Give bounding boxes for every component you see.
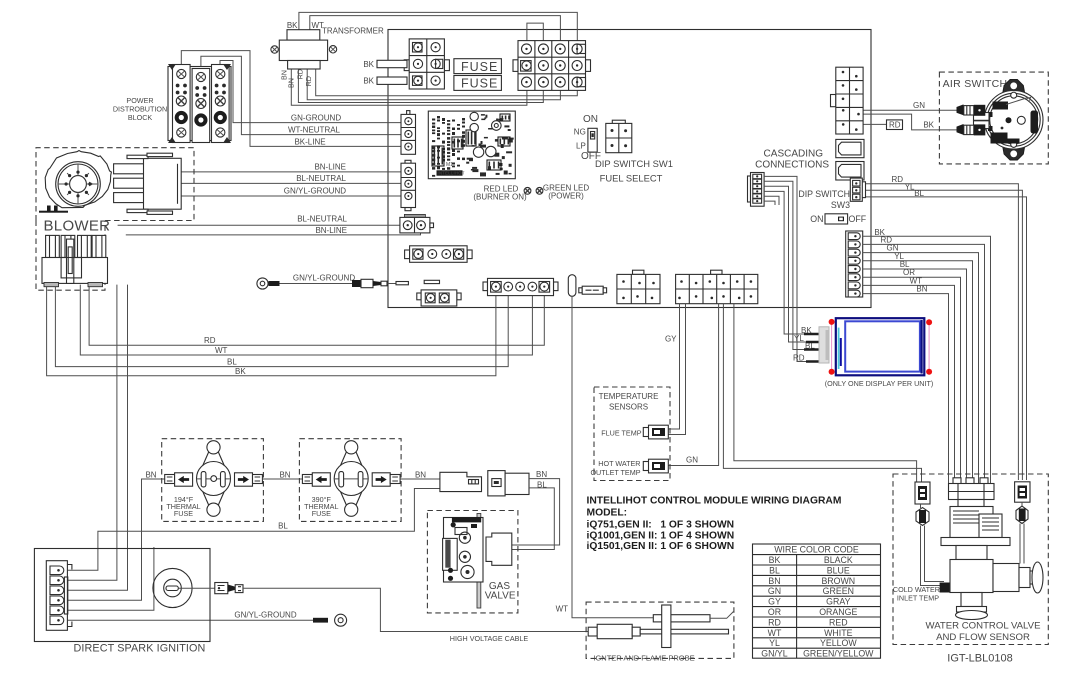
fuse F1 <box>454 59 502 74</box>
wire BK-LINE from power block col1 <box>181 51 401 147</box>
svg-text:GN/YL-GROUND: GN/YL-GROUND <box>284 186 346 195</box>
wire BN fuse1 to fuse2 <box>262 478 302 480</box>
connector J3 3-pin AC input <box>401 111 416 155</box>
svg-text:GRAY: GRAY <box>826 597 850 607</box>
wire RD transformer secondary 3 to 12-pin bottom col3 <box>307 69 560 100</box>
svg-text:DIP SWITCH SW1: DIP SWITCH SW1 <box>595 158 673 169</box>
svg-text:RD: RD <box>891 175 903 184</box>
svg-text:WHITE: WHITE <box>824 628 852 638</box>
air switch pressure switch body <box>984 80 1043 161</box>
inline lamp element <box>568 275 576 297</box>
hot water outlet connector <box>643 459 668 473</box>
spade pair on spark wire <box>215 583 243 594</box>
svg-text:BLOCK: BLOCK <box>128 113 153 122</box>
connector J13 6x2 grid <box>676 270 758 303</box>
wire neutral blower to DSI pin2 <box>67 285 117 581</box>
svg-text:BLOWER: BLOWER <box>44 218 111 235</box>
ring terminal GN/YL dsi <box>313 614 347 626</box>
svg-text:RD: RD <box>889 121 901 130</box>
wire display pin6 stub <box>764 201 775 205</box>
spark electrode <box>153 568 192 607</box>
svg-text:INLET TEMP: INLET TEMP <box>897 594 939 603</box>
wire BL inline to gas valve <box>512 488 555 550</box>
gas valve assembly <box>443 514 512 609</box>
connector fuel select 4-pin box <box>606 120 632 153</box>
thermal fuse 390F right spade <box>372 473 400 486</box>
dash mark on ground wire <box>396 282 408 285</box>
svg-text:INTELLIHOT CONTROL MODULE WIRI: INTELLIHOT CONTROL MODULE WIRING DIAGRAM <box>587 496 842 507</box>
svg-text:WT: WT <box>215 346 228 355</box>
flue temp connector <box>643 425 668 439</box>
svg-text:DIRECT SPARK IGNITION: DIRECT SPARK IGNITION <box>74 643 206 655</box>
svg-text:BK: BK <box>769 555 781 565</box>
svg-text:iQ751,GEN II: 1 OF 3 SHOWN: iQ751,GEN II: 1 OF 3 SHOWN <box>587 520 735 531</box>
control module outline <box>388 30 871 308</box>
wire flow sensor lead <box>1020 524 1024 564</box>
svg-text:ON: ON <box>810 214 823 224</box>
wire GN (J8) <box>863 253 979 484</box>
wire RD (J8) <box>863 244 985 483</box>
svg-text:BL: BL <box>914 189 924 198</box>
svg-text:ORANGE: ORANGE <box>819 607 857 617</box>
svg-text:BN-LINE: BN-LINE <box>315 226 347 235</box>
svg-text:FLUE TEMP: FLUE TEMP <box>601 428 641 437</box>
wire spark electrode to spade <box>178 587 215 589</box>
wire BK 5-pin to blower harness <box>47 285 496 376</box>
thermal fuse 194F <box>197 441 231 517</box>
igniter and flame probe dashed box <box>586 602 734 658</box>
thermal fuse 194F left spade <box>165 473 193 486</box>
wire BN (J8) <box>863 294 949 484</box>
thermal fuse 194F dashed box <box>162 439 264 522</box>
wire DSI pin5 riser <box>67 547 153 610</box>
svg-text:iQ1501,GEN II: 1 OF 6 SHOWN: iQ1501,GEN II: 1 OF 6 SHOWN <box>587 541 735 552</box>
wire DSI pin6 ground <box>67 619 313 621</box>
svg-text:BROWN: BROWN <box>821 576 855 586</box>
wire GY to flue temp <box>668 304 679 429</box>
svg-text:BK: BK <box>363 60 374 69</box>
display unit <box>819 318 932 375</box>
svg-text:(ONLY ONE DISPLAY PER UNIT): (ONLY ONE DISPLAY PER UNIT) <box>825 379 934 388</box>
connector SW3 3-pin <box>850 178 865 201</box>
wire display pin5 stub <box>764 196 779 205</box>
wire BN from DSI pin4 to thermal fuse <box>67 479 164 600</box>
spade terminal BK upper into J1 <box>377 60 407 67</box>
flow sensor right connector <box>1015 482 1030 502</box>
svg-text:BL-NEUTRAL: BL-NEUTRAL <box>296 174 346 183</box>
svg-text:BN: BN <box>536 470 547 479</box>
transformer <box>271 30 337 69</box>
flame probe rod <box>653 612 733 622</box>
connector J5 2-pin <box>400 214 434 233</box>
inline connector right body <box>488 471 529 496</box>
air switch mating housing <box>974 113 990 129</box>
cold water sensor tip <box>940 583 951 593</box>
wire BL 5-pin to blower harness <box>55 285 508 367</box>
PCBFILL <box>432 114 514 177</box>
connector J7 2x5 grid right side <box>831 67 864 134</box>
svg-text:BK: BK <box>287 21 298 30</box>
svg-text:BL-NEUTRAL: BL-NEUTRAL <box>297 215 347 224</box>
svg-text:BLUE: BLUE <box>827 565 850 575</box>
wire RD transformer secondary 4 to 12-pin bottom col4 <box>316 69 578 96</box>
svg-text:GN: GN <box>913 101 925 110</box>
direct spark ignition box <box>34 549 210 642</box>
svg-text:GY: GY <box>768 597 781 607</box>
power distribution block <box>168 64 231 143</box>
wire BL-NEUTRAL blower to J4 <box>140 182 401 184</box>
svg-text:OFF: OFF <box>849 214 867 224</box>
wire BN inline to gas valve <box>512 479 560 545</box>
valve outlet pipe <box>993 562 1043 593</box>
inline connector left body <box>440 472 482 491</box>
svg-text:NG: NG <box>574 128 586 137</box>
inline 2-terminal connector <box>579 286 607 294</box>
svg-text:BL: BL <box>227 358 237 367</box>
wire flue temp second <box>668 304 685 435</box>
svg-text:BN: BN <box>768 576 780 586</box>
svg-text:FUSE: FUSE <box>312 509 331 518</box>
svg-text:FUSE: FUSE <box>174 509 193 518</box>
wire RD 5-pin to blower harness <box>89 285 544 346</box>
wire BL-NEUTRAL lower run to J5 <box>118 224 403 226</box>
svg-text:RD: RD <box>304 76 313 86</box>
svg-text:YL: YL <box>769 638 780 648</box>
label RD boxed <box>887 120 903 130</box>
wire high voltage cable <box>243 588 588 631</box>
thermal fuse 194F right spade <box>235 473 263 486</box>
connector J2 12-pin 4x3 <box>513 41 591 91</box>
wire WT transformer primary to 12-pin col3 <box>310 16 561 41</box>
wire BK to air switch <box>859 114 958 130</box>
wire BN-LINE lower run to J5 <box>126 229 421 235</box>
flow sensor spade <box>1016 502 1028 523</box>
svg-text:HOT WATER: HOT WATER <box>598 459 640 468</box>
wire GN outlet temp <box>668 304 718 466</box>
svg-text:(BURNER ON): (BURNER ON) <box>473 193 527 202</box>
svg-text:GN/YL-GROUND: GN/YL-GROUND <box>234 611 296 620</box>
wire GN-GROUND from power block col3 <box>220 61 401 123</box>
wire RD stub <box>843 123 886 125</box>
svg-text:RD: RD <box>768 617 781 627</box>
blower fan <box>39 151 111 213</box>
blower plug 4-pin <box>114 153 182 214</box>
svg-text:DIP SWITCH: DIP SWITCH <box>798 189 850 199</box>
svg-text:YL: YL <box>794 334 804 343</box>
connector J12 3x2 grid <box>617 270 660 303</box>
svg-text:BN: BN <box>916 285 927 294</box>
svg-text:BK: BK <box>923 121 934 130</box>
cascading connector 2 <box>836 162 864 181</box>
wire BN transformer secondary 1 to 12-pin bottom col1 <box>291 69 527 105</box>
wire GN-GROUND blower ring terminal into module <box>275 283 397 285</box>
spade terminal BK lower into J1 <box>377 77 407 84</box>
svg-text:TEMPERATURE: TEMPERATURE <box>599 392 659 401</box>
svg-text:HIGH VOLTAGE CABLE: HIGH VOLTAGE CABLE <box>450 634 529 643</box>
svg-text:M1: M1 <box>446 162 453 168</box>
svg-text:GN/YL: GN/YL <box>761 649 788 659</box>
wire cold water sensor lead <box>921 526 945 586</box>
mounting plate <box>662 605 671 648</box>
wire YL to display <box>764 186 820 342</box>
cold water temp spade <box>916 504 929 526</box>
svg-text:INTELLIHOT: INTELLIHOT <box>438 171 465 176</box>
dip switch SW1 fuel select <box>588 128 597 152</box>
svg-text:ON: ON <box>583 114 598 125</box>
svg-text:OR: OR <box>768 607 781 617</box>
gas valve dashed box <box>427 511 518 613</box>
wire cold water sensor B <box>734 304 917 482</box>
wire WT-NEUTRAL from power block col2 <box>201 56 401 134</box>
svg-text:GY: GY <box>665 335 677 344</box>
svg-text:TRANSFORMER: TRANSFORMER <box>322 27 384 36</box>
ring terminal GN/YL <box>257 278 280 289</box>
svg-text:WT: WT <box>556 605 569 614</box>
svg-text:GN: GN <box>768 586 781 596</box>
svg-text:BK: BK <box>235 367 246 376</box>
air switch spade lower <box>957 124 986 135</box>
air switch dashed enclosure <box>939 72 1048 164</box>
wire YL (J8) <box>863 261 973 484</box>
connector J6 4-pin bottom <box>405 246 473 262</box>
svg-text:RED: RED <box>829 617 848 627</box>
wire BL (J8) <box>863 269 967 484</box>
svg-text:SW3: SW3 <box>831 200 850 210</box>
wire line blower to DSI pin3 <box>67 285 127 591</box>
air switch spade upper <box>957 104 986 115</box>
svg-text:SENSORS: SENSORS <box>609 403 648 412</box>
DSI connector 6-pin <box>46 561 72 631</box>
svg-text:YELLOW: YELLOW <box>820 638 857 648</box>
svg-text:WT: WT <box>312 21 325 30</box>
valve top connector <box>949 478 995 507</box>
wire BL from SW3 <box>862 197 1027 480</box>
LED symbol red <box>524 187 531 194</box>
display wire thick ends <box>804 334 820 362</box>
svg-text:BLACK: BLACK <box>824 555 853 565</box>
blower power connector <box>42 235 108 286</box>
wire BK (J8) <box>863 236 991 483</box>
svg-text:MODEL:: MODEL: <box>587 508 628 519</box>
svg-text:BK-LINE: BK-LINE <box>294 137 325 146</box>
connector J10 2-pin bottom <box>417 290 461 306</box>
svg-text:FUSE: FUSE <box>461 60 498 74</box>
thermal fuse 390F dashed box <box>299 439 401 522</box>
svg-text:AIR SWITCH: AIR SWITCH <box>943 78 1008 90</box>
svg-text:GN/YL-GROUND: GN/YL-GROUND <box>293 274 355 283</box>
wire BN fuse2 to inline connector <box>400 478 440 480</box>
wire YL from SW3 <box>862 190 1023 480</box>
cold water temp connector <box>915 482 930 504</box>
flow sensor body <box>941 507 1010 620</box>
svg-text:IGNTER AND FLAME PROBE: IGNTER AND FLAME PROBE <box>593 654 694 663</box>
svg-text:BN: BN <box>279 470 290 479</box>
wire OR (J8) <box>863 277 961 483</box>
connector J4 3-pin blower control <box>401 160 416 210</box>
wire BL to display <box>764 181 820 349</box>
svg-text:WT: WT <box>768 628 782 638</box>
svg-text:CONNECTIONS: CONNECTIONS <box>755 160 829 171</box>
wire BK transformer primary to 12-pin col4 <box>299 12 577 40</box>
switch ON/OFF (SW3) <box>825 214 848 224</box>
wire cold water sensor A <box>723 304 921 482</box>
svg-text:GREEN/YELLOW: GREEN/YELLOW <box>803 649 874 659</box>
LED symbol green <box>536 187 543 194</box>
svg-text:FUSE: FUSE <box>461 77 498 91</box>
svg-text:WIRE COLOR CODE: WIRE COLOR CODE <box>774 545 859 555</box>
cascading connector 1 <box>836 139 864 157</box>
svg-text:BK: BK <box>363 77 374 86</box>
water control valve dashed box <box>893 474 1048 645</box>
svg-text:GN: GN <box>686 456 698 465</box>
dash mark 2 <box>424 280 439 283</box>
connector J11 5-pin bottom <box>483 278 558 295</box>
svg-text:WT-NEUTRAL: WT-NEUTRAL <box>288 126 341 135</box>
svg-text:LP: LP <box>576 141 586 150</box>
wire RD to display <box>764 176 820 361</box>
svg-text:BN: BN <box>415 470 426 479</box>
wire BK to display <box>764 191 820 334</box>
svg-text:GN-GROUND: GN-GROUND <box>291 113 341 122</box>
svg-text:(POWER): (POWER) <box>548 192 584 201</box>
wire BN transformer secondary 2 to 12-pin bottom col2 <box>298 69 543 103</box>
svg-text:IGT-LBL0108: IGT-LBL0108 <box>947 653 1012 665</box>
wire WT (J8) <box>863 285 955 483</box>
svg-text:VALVE: VALVE <box>485 591 516 602</box>
igniter <box>588 624 728 638</box>
wire GN/YL-GROUND blower to J4 <box>140 195 401 197</box>
wire bridge 12-pin top row col1-col2 <box>527 23 543 40</box>
svg-text:AND FLOW SENSOR: AND FLOW SENSOR <box>936 632 1030 643</box>
svg-text:CASCADING: CASCADING <box>764 149 824 160</box>
blower dashed enclosure <box>36 148 194 291</box>
svg-text:BL: BL <box>278 522 288 531</box>
svg-text:RD: RD <box>204 336 216 345</box>
svg-text:GREEN: GREEN <box>823 586 854 596</box>
wire WT flame probe feed <box>572 296 653 618</box>
wire color code table <box>753 544 881 659</box>
wire RD from SW3 down right side <box>862 184 1019 480</box>
connector J1 6-pin 2x3 <box>404 39 449 89</box>
svg-text:WATER CONTROL VALVE: WATER CONTROL VALVE <box>926 621 1041 632</box>
svg-text:RD: RD <box>793 353 805 362</box>
wire BL from DSI pin1 to inline connector <box>67 489 440 571</box>
svg-text:BL: BL <box>769 565 780 575</box>
thermal fuse 390F left spade <box>302 473 330 486</box>
svg-text:OUTLET TEMP: OUTLET TEMP <box>590 468 640 477</box>
spade pair on ground wire <box>352 279 387 287</box>
wire GN to air switch <box>843 109 957 111</box>
temperature sensors dashed box <box>594 387 670 481</box>
connector J9 display 6-pin <box>748 173 765 207</box>
PCB control board <box>428 111 515 179</box>
thermal fuse 390F <box>334 441 368 517</box>
fuse F2 <box>454 76 502 91</box>
wire BN-LINE blower to J4 <box>140 171 401 173</box>
svg-text:iQ1001,GEN II: 1 OF 4 SHOWN: iQ1001,GEN II: 1 OF 4 SHOWN <box>587 530 735 541</box>
svg-text:BN: BN <box>145 470 156 479</box>
wire WT 5-pin to blower harness <box>80 285 532 355</box>
connector J8 8-pin <box>846 231 863 297</box>
svg-text:BN: BN <box>287 78 296 88</box>
svg-text:FUEL SELECT: FUEL SELECT <box>600 172 663 183</box>
svg-text:BN-LINE: BN-LINE <box>314 162 346 171</box>
